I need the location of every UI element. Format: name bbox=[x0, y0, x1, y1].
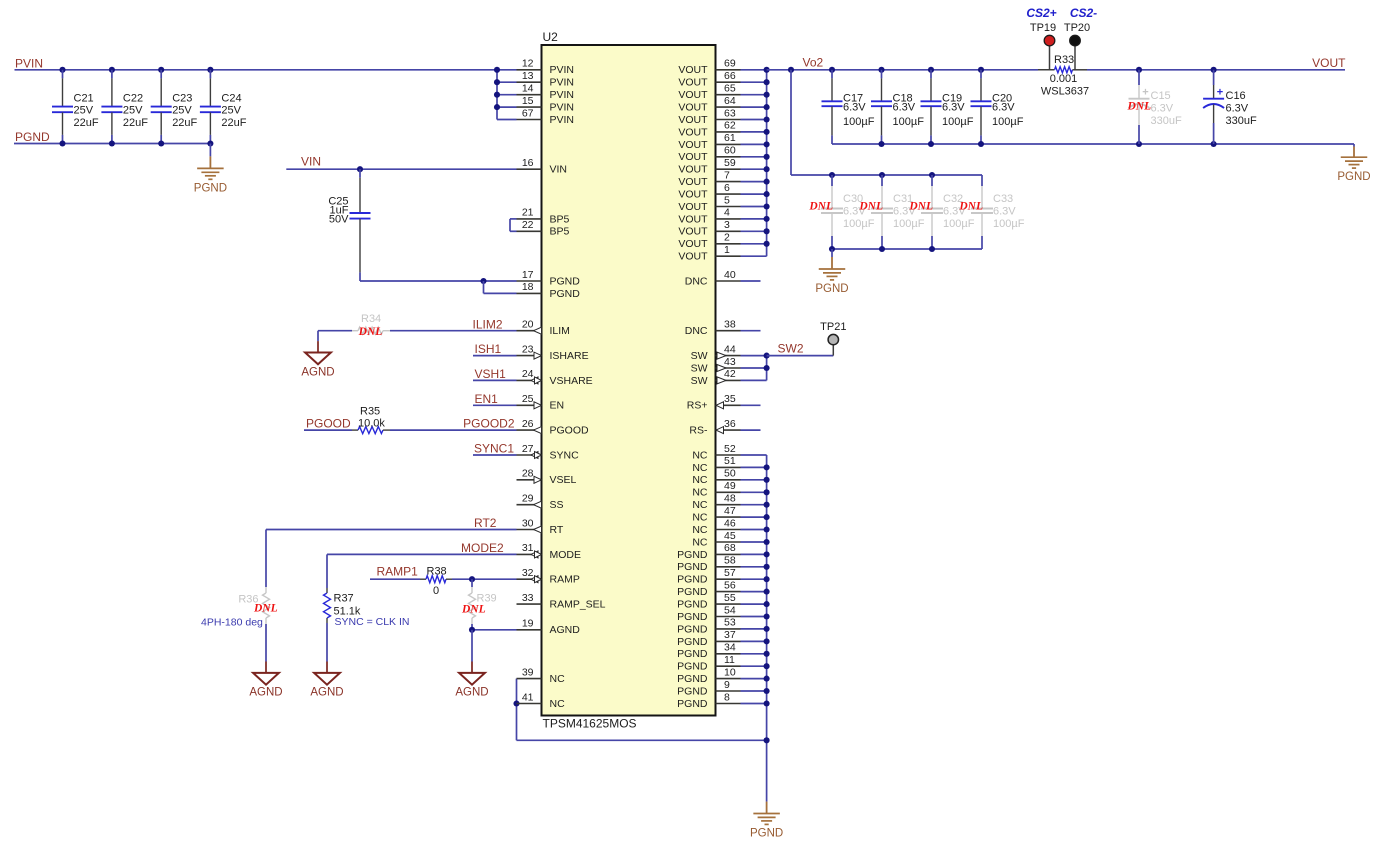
pin 37 (PGND) bbox=[716, 640, 741, 642]
svg-text:42: 42 bbox=[724, 368, 736, 380]
pin 17 (PGND) bbox=[517, 280, 542, 282]
svg-text:13: 13 bbox=[522, 70, 534, 82]
node VOUT row11 bbox=[764, 203, 770, 209]
svg-text:43: 43 bbox=[724, 356, 736, 368]
wire NC/PGND bus bbox=[766, 455, 768, 802]
node C31 top bbox=[879, 172, 885, 178]
svg-text:TP20: TP20 bbox=[1064, 22, 1090, 34]
svg-text:64: 64 bbox=[724, 95, 736, 107]
wire EN1 bbox=[473, 404, 517, 406]
svg-text:NC: NC bbox=[692, 524, 708, 536]
svg-text:6.3V: 6.3V bbox=[992, 102, 1015, 114]
pin 56 (PGND) bbox=[716, 591, 741, 593]
node VOUT row5 bbox=[764, 129, 770, 135]
svg-text:PGND: PGND bbox=[677, 561, 708, 573]
node bus row47 bbox=[764, 651, 770, 657]
svg-text:22uF: 22uF bbox=[221, 117, 246, 129]
pin 35 (RS+) bbox=[716, 404, 741, 406]
svg-text:R37: R37 bbox=[334, 593, 354, 605]
svg-text:VIN: VIN bbox=[550, 164, 568, 176]
svg-text:R38: R38 bbox=[427, 566, 447, 578]
svg-text:AGND: AGND bbox=[310, 687, 343, 699]
testpoint TP20 (CS2-) bbox=[1074, 46, 1076, 70]
pin 4 (VOUT) bbox=[716, 218, 741, 220]
node bus row45 bbox=[764, 626, 770, 632]
svg-text:6: 6 bbox=[724, 182, 730, 194]
svg-text:12: 12 bbox=[522, 58, 534, 70]
pin 66 (VOUT) bbox=[716, 81, 741, 83]
node C15 bottom bbox=[1136, 141, 1142, 147]
testpoint TP19 (CS2+) bbox=[1049, 46, 1051, 70]
pin 64 (VOUT) bbox=[716, 106, 741, 108]
node bus row35 bbox=[764, 502, 770, 508]
svg-text:24: 24 bbox=[522, 368, 534, 380]
svg-text:SYNC = CLK IN: SYNC = CLK IN bbox=[335, 616, 410, 628]
svg-text:DNC: DNC bbox=[685, 275, 708, 287]
pin 20 (ILIM) bbox=[517, 330, 542, 332]
wire ISH1 bbox=[473, 355, 517, 357]
pin 60 (VOUT) bbox=[716, 156, 741, 158]
node C16 top bbox=[1211, 67, 1217, 73]
svg-text:SS: SS bbox=[550, 499, 564, 511]
pin 59 (VOUT) bbox=[716, 168, 741, 170]
node bus row43 bbox=[764, 601, 770, 607]
pin 65 (VOUT) bbox=[716, 94, 741, 96]
svg-text:10: 10 bbox=[724, 666, 736, 678]
svg-text:VOUT: VOUT bbox=[678, 238, 708, 250]
svg-text:VOUT: VOUT bbox=[678, 126, 708, 138]
svg-text:PGND: PGND bbox=[677, 698, 708, 710]
svg-text:VOUT: VOUT bbox=[678, 77, 708, 89]
node PVIN pin13 bbox=[494, 79, 500, 85]
node bus row48 bbox=[764, 663, 770, 669]
node bus row38 bbox=[764, 539, 770, 545]
svg-text:4PH-180 deg: 4PH-180 deg bbox=[201, 617, 263, 629]
svg-text:C23: C23 bbox=[172, 92, 192, 104]
node VOUT row4 bbox=[764, 116, 770, 122]
svg-text:NC: NC bbox=[692, 536, 708, 548]
svg-text:VOUT: VOUT bbox=[678, 89, 708, 101]
node VOUT row6 bbox=[764, 141, 770, 147]
svg-text:AGND: AGND bbox=[249, 687, 282, 699]
svg-text:RT: RT bbox=[550, 524, 564, 536]
node PVIN-C24 bbox=[207, 67, 213, 73]
svg-text:60: 60 bbox=[724, 145, 736, 157]
svg-text:20: 20 bbox=[522, 319, 534, 331]
pin 54 (PGND) bbox=[716, 616, 741, 618]
svg-text:VSEL: VSEL bbox=[550, 474, 577, 486]
svg-text:59: 59 bbox=[724, 157, 736, 169]
pin 11 (PGND) bbox=[716, 665, 741, 667]
wire BP5 tie pins 21-22 bbox=[510, 218, 517, 220]
svg-text:15: 15 bbox=[522, 95, 534, 107]
capacitor C15 (DNL, polarized) bbox=[1138, 70, 1140, 85]
pin 25 (EN) bbox=[517, 404, 542, 406]
svg-text:52: 52 bbox=[724, 443, 736, 455]
node C19 top bbox=[928, 67, 934, 73]
svg-text:AGND: AGND bbox=[455, 687, 488, 699]
svg-text:58: 58 bbox=[724, 555, 736, 567]
svg-text:PGND: PGND bbox=[677, 661, 708, 673]
svg-text:SW: SW bbox=[691, 350, 708, 362]
svg-text:PGOOD: PGOOD bbox=[306, 417, 351, 431]
svg-text:C21: C21 bbox=[74, 92, 94, 104]
node bus row37 bbox=[764, 526, 770, 532]
svg-text:100µF: 100µF bbox=[893, 218, 925, 230]
svg-text:6.3V: 6.3V bbox=[893, 102, 916, 114]
svg-text:PGOOD2: PGOOD2 bbox=[463, 417, 515, 431]
wire Vo2 riser to DNL bank bbox=[790, 70, 792, 175]
node C20 bottom bbox=[978, 141, 984, 147]
node bus row49 bbox=[764, 676, 770, 682]
svg-text:36: 36 bbox=[724, 418, 736, 430]
svg-text:RAMP1: RAMP1 bbox=[377, 565, 419, 579]
node bus row32 bbox=[764, 464, 770, 470]
pin 18 (PGND) bbox=[517, 292, 542, 294]
svg-text:CS2+: CS2+ bbox=[1026, 6, 1056, 20]
svg-text:51: 51 bbox=[724, 455, 736, 467]
svg-text:25: 25 bbox=[522, 393, 534, 405]
wire DNC pin 38 stub bbox=[741, 330, 761, 332]
node VOUT row9 bbox=[764, 179, 770, 185]
pin 5 (VOUT) bbox=[716, 206, 741, 208]
svg-text:ILIM2: ILIM2 bbox=[472, 317, 502, 331]
node VIN-C25 bbox=[357, 166, 363, 172]
node VOUT row13 bbox=[764, 228, 770, 234]
svg-text:1: 1 bbox=[724, 244, 730, 256]
svg-text:PGND: PGND bbox=[677, 586, 708, 598]
node C18 top bbox=[878, 67, 884, 73]
svg-text:VOUT: VOUT bbox=[678, 189, 708, 201]
wire DNL bank bottom rail bbox=[832, 248, 982, 250]
wire SW bus bbox=[766, 356, 768, 381]
svg-text:50V: 50V bbox=[329, 214, 349, 226]
svg-text:VOUT: VOUT bbox=[678, 139, 708, 151]
svg-text:22uF: 22uF bbox=[123, 117, 148, 129]
resistor R33 0.001 WSL3637 bbox=[1038, 69, 1055, 71]
svg-text:6.3V: 6.3V bbox=[993, 206, 1016, 218]
pin 55 (PGND) bbox=[716, 603, 741, 605]
svg-text:61: 61 bbox=[724, 132, 736, 144]
svg-text:DNC: DNC bbox=[685, 325, 708, 337]
svg-text:PGND: PGND bbox=[15, 130, 50, 144]
svg-text:6.3V: 6.3V bbox=[1151, 103, 1174, 115]
ground PGND (input filter) bbox=[209, 144, 211, 157]
pin 14 (PVIN) bbox=[517, 94, 542, 96]
wire SYNC1 bbox=[473, 454, 517, 456]
node PGND-C24 bbox=[207, 140, 213, 146]
node PVIN pin12 bbox=[494, 67, 500, 73]
svg-text:63: 63 bbox=[724, 107, 736, 119]
pin 12 (PVIN) bbox=[517, 69, 542, 71]
svg-text:41: 41 bbox=[522, 691, 534, 703]
svg-text:NC: NC bbox=[550, 673, 566, 685]
pin 21 (BP5) bbox=[517, 218, 542, 220]
svg-text:0.001: 0.001 bbox=[1050, 73, 1078, 85]
svg-text:100µF: 100µF bbox=[992, 116, 1024, 128]
capacitor C32 (DNL) bbox=[931, 175, 933, 186]
pin 69 (VOUT) bbox=[716, 69, 741, 71]
svg-text:PGND: PGND bbox=[1337, 171, 1370, 183]
wire RT2 bbox=[266, 529, 517, 531]
svg-text:37: 37 bbox=[724, 629, 736, 641]
svg-text:3: 3 bbox=[724, 219, 730, 231]
pin 13 (PVIN) bbox=[517, 81, 542, 83]
node bus row33 bbox=[764, 477, 770, 483]
svg-text:PGND: PGND bbox=[677, 685, 708, 697]
svg-text:DNL: DNL bbox=[461, 604, 486, 616]
capacitor C31 (DNL) bbox=[881, 175, 883, 186]
svg-text:19: 19 bbox=[522, 618, 534, 630]
svg-text:22: 22 bbox=[522, 219, 534, 231]
svg-text:32: 32 bbox=[522, 567, 534, 579]
pin 8 (PGND) bbox=[716, 703, 741, 705]
svg-text:PGND: PGND bbox=[677, 611, 708, 623]
svg-text:55: 55 bbox=[724, 592, 736, 604]
svg-text:35: 35 bbox=[724, 393, 736, 405]
svg-text:17: 17 bbox=[522, 269, 534, 281]
capacitor C22 bbox=[111, 70, 113, 79]
svg-text:AGND: AGND bbox=[301, 366, 334, 378]
capacitor C24 bbox=[209, 70, 211, 79]
pin 31 (MODE) bbox=[517, 553, 542, 555]
svg-text:PVIN: PVIN bbox=[550, 64, 575, 76]
svg-text:VOUT: VOUT bbox=[678, 213, 708, 225]
svg-text:RAMP: RAMP bbox=[550, 574, 580, 586]
pin 29 (SS) bbox=[517, 504, 542, 506]
pin 15 (PVIN) bbox=[517, 106, 542, 108]
svg-text:48: 48 bbox=[724, 493, 736, 505]
pin 51 (NC) bbox=[716, 466, 741, 468]
svg-text:100µF: 100µF bbox=[942, 116, 974, 128]
svg-text:C33: C33 bbox=[993, 193, 1013, 205]
svg-text:PVIN: PVIN bbox=[550, 114, 575, 126]
node VOUT row3 bbox=[764, 104, 770, 110]
capacitor C30 (DNL) bbox=[831, 175, 833, 186]
svg-text:Vo2: Vo2 bbox=[803, 56, 824, 70]
svg-text:PGND: PGND bbox=[677, 623, 708, 635]
svg-text:+: + bbox=[1217, 87, 1223, 99]
svg-text:+: + bbox=[1142, 87, 1148, 99]
wire VOUT bottom rail bbox=[832, 143, 1354, 145]
resistor R36 (DNL) bbox=[265, 530, 267, 588]
wire PGOOD bbox=[304, 429, 352, 431]
pin 39 (NC) bbox=[517, 678, 542, 680]
node VOUT row12 bbox=[764, 216, 770, 222]
svg-text:6.3V: 6.3V bbox=[1226, 103, 1249, 115]
svg-text:PVIN: PVIN bbox=[550, 102, 575, 114]
svg-text:DNL: DNL bbox=[253, 603, 278, 615]
node PVIN pin14 bbox=[494, 92, 500, 98]
testpoint TP21 bbox=[832, 345, 834, 356]
node VOUT row10 bbox=[764, 191, 770, 197]
svg-text:VOUT: VOUT bbox=[678, 176, 708, 188]
svg-text:C22: C22 bbox=[123, 92, 143, 104]
capacitor C16 (polarized) bbox=[1213, 70, 1215, 85]
wire VOUT bus bbox=[766, 70, 768, 256]
resistor R34 (DNL) bbox=[352, 330, 358, 332]
svg-text:ISHARE: ISHARE bbox=[550, 350, 589, 362]
ground PGND (bottom) bbox=[766, 802, 768, 814]
svg-text:ISH1: ISH1 bbox=[475, 342, 502, 356]
svg-text:DNL: DNL bbox=[858, 201, 883, 213]
svg-text:66: 66 bbox=[724, 70, 736, 82]
svg-text:TP19: TP19 bbox=[1030, 22, 1056, 34]
node VOUT row2 bbox=[764, 92, 770, 98]
svg-text:5: 5 bbox=[724, 194, 730, 206]
wire VOUT top bbox=[767, 69, 1038, 71]
svg-text:DNL: DNL bbox=[808, 201, 833, 213]
svg-text:PGND: PGND bbox=[550, 275, 581, 287]
pin 46 (NC) bbox=[716, 529, 741, 531]
svg-text:45: 45 bbox=[724, 530, 736, 542]
pin 63 (VOUT) bbox=[716, 119, 741, 121]
svg-text:PVIN: PVIN bbox=[15, 57, 43, 71]
node VOUT row14 bbox=[764, 241, 770, 247]
svg-text:PGND: PGND bbox=[750, 828, 783, 840]
pin 26 (PGOOD) bbox=[517, 429, 542, 431]
pin 19 (AGND) bbox=[517, 629, 542, 631]
wire PVIN rail bbox=[15, 69, 498, 71]
svg-text:330uF: 330uF bbox=[1151, 115, 1182, 127]
node PVIN pin15 bbox=[494, 104, 500, 110]
svg-text:R33: R33 bbox=[1054, 54, 1074, 66]
svg-text:100µF: 100µF bbox=[843, 116, 875, 128]
resistor R39 (DNL) bbox=[471, 579, 473, 587]
svg-text:PGND: PGND bbox=[677, 673, 708, 685]
IC U2 TPSM41625MOS body bbox=[542, 45, 716, 716]
pin 53 (PGND) bbox=[716, 628, 741, 630]
node bus row36 bbox=[764, 514, 770, 520]
pin 9 (PGND) bbox=[716, 690, 741, 692]
svg-text:25V: 25V bbox=[172, 104, 192, 116]
capacitor C33 (DNL) bbox=[981, 175, 983, 186]
node PVIN-C22 bbox=[109, 67, 115, 73]
node SW43 bbox=[764, 365, 770, 371]
svg-text:PGOOD: PGOOD bbox=[550, 425, 590, 437]
pin 24 (VSHARE) bbox=[517, 379, 542, 381]
pin 61 (VOUT) bbox=[716, 143, 741, 145]
svg-text:VOUT: VOUT bbox=[678, 251, 708, 263]
svg-text:54: 54 bbox=[724, 604, 736, 616]
svg-text:R34: R34 bbox=[361, 313, 381, 325]
svg-text:VOUT: VOUT bbox=[678, 114, 708, 126]
pin 38 (DNC) bbox=[716, 330, 741, 332]
node SW44 bbox=[764, 353, 770, 359]
node RAMP-R39 bbox=[469, 576, 475, 582]
svg-text:2: 2 bbox=[724, 232, 730, 244]
svg-text:34: 34 bbox=[724, 642, 736, 654]
pin 50 (NC) bbox=[716, 479, 741, 481]
svg-text:VOUT: VOUT bbox=[678, 226, 708, 238]
pin 28 (VSEL) bbox=[517, 479, 542, 481]
node bus-NCloop bbox=[764, 737, 770, 743]
svg-text:SW2: SW2 bbox=[778, 341, 804, 355]
svg-text:57: 57 bbox=[724, 567, 736, 579]
svg-text:33: 33 bbox=[522, 592, 534, 604]
svg-text:22uF: 22uF bbox=[74, 117, 99, 129]
svg-text:R35: R35 bbox=[360, 406, 380, 418]
node VOUT row7 bbox=[764, 154, 770, 160]
node C18 bottom bbox=[878, 141, 884, 147]
svg-text:38: 38 bbox=[724, 319, 736, 331]
svg-text:6.3V: 6.3V bbox=[942, 102, 965, 114]
svg-text:RAMP_SEL: RAMP_SEL bbox=[550, 599, 606, 611]
svg-text:22uF: 22uF bbox=[172, 117, 197, 129]
svg-text:TPSM41625MOS: TPSM41625MOS bbox=[543, 717, 637, 731]
svg-text:68: 68 bbox=[724, 542, 736, 554]
svg-text:C15: C15 bbox=[1151, 90, 1171, 102]
svg-text:PGND: PGND bbox=[677, 574, 708, 586]
pin 67 (PVIN) bbox=[517, 119, 542, 121]
pin 49 (NC) bbox=[716, 491, 741, 493]
pin 3 (VOUT) bbox=[716, 230, 741, 232]
pin 47 (NC) bbox=[716, 516, 741, 518]
node Vo2 riser bbox=[788, 67, 794, 73]
pin 1 (VOUT) bbox=[716, 255, 741, 257]
resistor R38 bbox=[420, 578, 426, 580]
svg-text:67: 67 bbox=[522, 107, 534, 119]
pin 2 (VOUT) bbox=[716, 243, 741, 245]
svg-text:C24: C24 bbox=[221, 92, 241, 104]
svg-text:VOUT: VOUT bbox=[1312, 56, 1346, 70]
svg-text:16: 16 bbox=[522, 157, 534, 169]
node C19 bottom bbox=[928, 141, 934, 147]
svg-text:C16: C16 bbox=[1226, 90, 1246, 102]
node PVIN-C21 bbox=[59, 67, 65, 73]
svg-text:RS+: RS+ bbox=[687, 400, 708, 412]
node bus row50 bbox=[764, 688, 770, 694]
capacitor C20 bbox=[980, 70, 982, 79]
ground AGND (R36) bbox=[265, 661, 267, 663]
node C32 top bbox=[929, 172, 935, 178]
svg-text:31: 31 bbox=[522, 542, 534, 554]
svg-text:PGND: PGND bbox=[677, 636, 708, 648]
svg-text:SYNC1: SYNC1 bbox=[474, 442, 514, 456]
svg-text:MODE: MODE bbox=[550, 549, 582, 561]
svg-text:NC: NC bbox=[692, 499, 708, 511]
pin 6 (VOUT) bbox=[716, 193, 741, 195]
node PVIN-C23 bbox=[158, 67, 164, 73]
svg-text:PGND: PGND bbox=[677, 549, 708, 561]
wire MODE2 bbox=[327, 553, 517, 555]
node C17 top bbox=[829, 67, 835, 73]
svg-text:53: 53 bbox=[724, 617, 736, 629]
svg-text:SW: SW bbox=[691, 375, 708, 387]
node VOUT row1 bbox=[764, 79, 770, 85]
svg-text:AGND: AGND bbox=[550, 624, 581, 636]
wire PVIN bus bbox=[496, 70, 498, 120]
svg-text:VOUT: VOUT bbox=[678, 64, 708, 76]
node PGND-C22 bbox=[109, 140, 115, 146]
svg-text:VSHARE: VSHARE bbox=[550, 375, 593, 387]
node bus row46 bbox=[764, 638, 770, 644]
pin 45 (NC) bbox=[716, 541, 741, 543]
node bus row39 bbox=[764, 551, 770, 557]
ground AGND (R39) bbox=[471, 661, 473, 663]
pin 62 (VOUT) bbox=[716, 131, 741, 133]
node C30 bottom bbox=[829, 246, 835, 252]
pin 10 (PGND) bbox=[716, 678, 741, 680]
svg-text:PGND: PGND bbox=[815, 283, 848, 295]
svg-text:SYNC: SYNC bbox=[550, 449, 580, 461]
svg-text:MODE2: MODE2 bbox=[461, 541, 504, 555]
svg-text:VSH1: VSH1 bbox=[475, 367, 507, 381]
svg-text:ILIM: ILIM bbox=[550, 325, 570, 337]
wire PGND rail bbox=[14, 143, 210, 145]
node PGND17-18 bbox=[480, 278, 486, 284]
wire RS+ stub bbox=[741, 404, 761, 406]
